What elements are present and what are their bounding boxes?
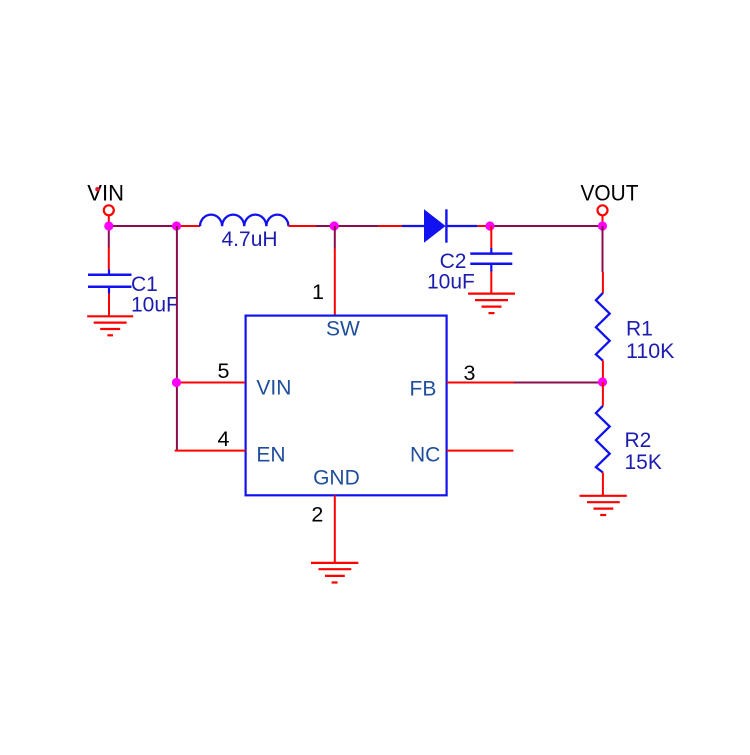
wire R1 lower lead red (602, 361, 604, 383)
capacitor C1 (88, 270, 132, 294)
resistor R2 (596, 406, 610, 473)
svg-text:FB: FB (410, 378, 437, 401)
red mark artifact near VIN (95, 187, 100, 192)
svg-text:R1: R1 (626, 318, 653, 341)
wire R2 lower lead red (602, 473, 604, 496)
svg-text:1: 1 (312, 280, 324, 304)
wire J3 to diode purple (334, 225, 378, 227)
wire VOUT down purple (602, 226, 604, 272)
wire inductor to J3 red (289, 225, 317, 227)
wire EN pin red (175, 450, 246, 452)
junction J1 at VIN (104, 221, 113, 230)
wire C2 upper lead red (490, 226, 492, 248)
svg-text:NC: NC (410, 444, 440, 467)
inductor L1 4.7uH (200, 215, 288, 227)
IC U1 body (246, 316, 447, 496)
junction J6 at VIN pin (172, 378, 181, 387)
wire J4 to VOUT purple (490, 225, 603, 227)
svg-text:110K: 110K (626, 340, 675, 363)
junction J3 at SW node (330, 221, 339, 230)
svg-text:10uF: 10uF (427, 271, 475, 294)
ground under C1 (87, 316, 133, 335)
svg-text:15K: 15K (625, 451, 662, 474)
wire net VIN horizontal J1-J2 (109, 225, 177, 227)
wire FB pin red (447, 382, 514, 384)
svg-text:5: 5 (218, 359, 230, 383)
ground under C2 (468, 294, 515, 314)
svg-text:VIN: VIN (87, 180, 124, 205)
wire NC pin red (447, 450, 514, 452)
wire VIN pin red (177, 382, 246, 384)
terminal VOUT (598, 205, 608, 215)
svg-text:VOUT: VOUT (581, 180, 639, 205)
wire SW pin purple (334, 226, 336, 249)
wire J2 to inductor red (177, 225, 201, 227)
svg-text:GND: GND (313, 467, 360, 490)
junction J5 at VOUT (598, 221, 607, 230)
wire C1 upper lead purple (108, 226, 110, 248)
wire diode cathode lead red (477, 225, 490, 227)
wire C2 lower lead red (490, 272, 492, 294)
wire GND pin red (334, 495, 336, 563)
svg-text:EN: EN (256, 444, 285, 467)
svg-text:4: 4 (218, 427, 230, 451)
svg-text:SW: SW (326, 317, 360, 340)
capacitor C2 (470, 248, 512, 272)
wire diode anode lead red (378, 225, 403, 227)
svg-text:10uF: 10uF (131, 294, 179, 317)
svg-text:4.7uH: 4.7uH (222, 228, 278, 251)
wire C1 lower lead red (108, 294, 110, 317)
diode D1 (402, 209, 477, 242)
wire C1 upper lead red (108, 247, 110, 271)
junction J2 (172, 221, 181, 230)
wire FB to divider purple (514, 382, 603, 384)
svg-text:VIN: VIN (256, 377, 291, 400)
terminal VIN (104, 205, 114, 215)
wire left vertical purple J2 down to EN corner (176, 226, 178, 451)
wire R2 upper lead red (602, 382, 604, 406)
svg-text:2: 2 (311, 503, 323, 527)
wire VOUT terminal stub (602, 215, 604, 226)
ground under GND pin (311, 563, 358, 583)
svg-text:R2: R2 (625, 429, 652, 452)
resistor R1 (596, 293, 610, 361)
wire SW pin red (334, 249, 336, 316)
wire inductor to J3 purple (316, 225, 334, 227)
junction J7 at FB divider (598, 377, 607, 386)
junction J4 at diode output (485, 221, 494, 230)
ground under R2 (580, 496, 627, 515)
wire VIN terminal stub (108, 215, 110, 226)
wire R1 upper lead red (602, 272, 604, 293)
